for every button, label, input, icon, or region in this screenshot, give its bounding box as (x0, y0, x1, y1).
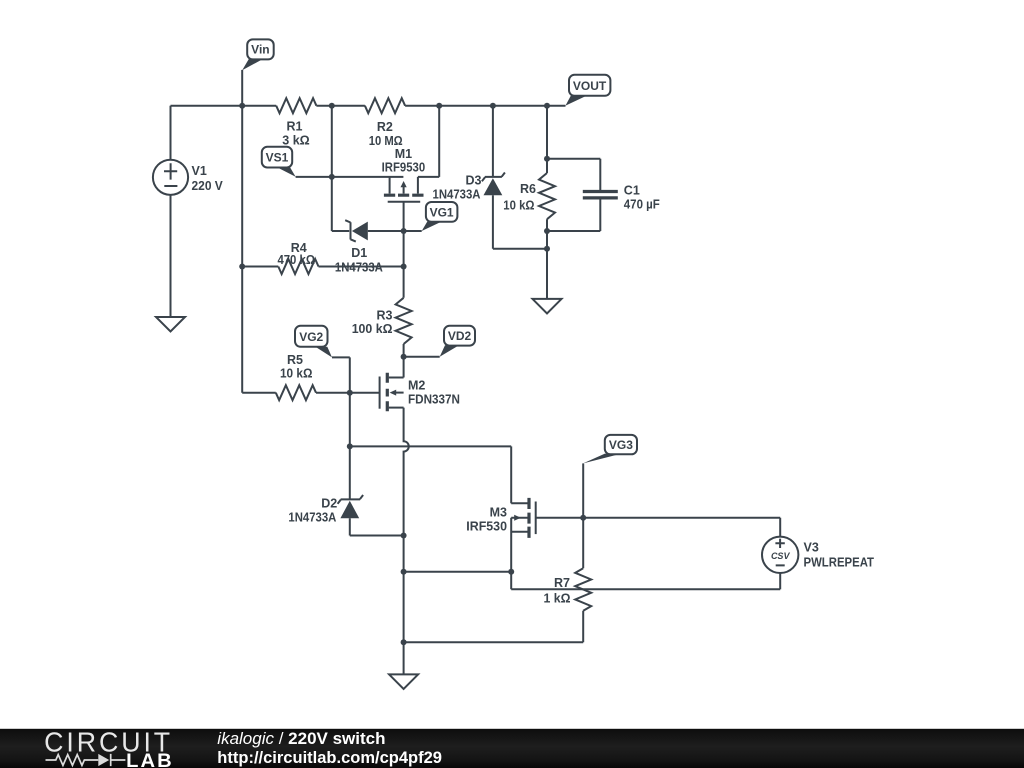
ground V1 (156, 317, 185, 332)
svg-text:R1: R1 (287, 120, 303, 134)
junction bottom left (401, 569, 407, 575)
wire R4 left lead (242, 266, 278, 268)
svg-text:V1: V1 (192, 164, 207, 178)
svg-text:FDN337N: FDN337N (408, 392, 460, 406)
wire R4 right lead (319, 266, 404, 268)
node VD2 flag (440, 326, 475, 357)
svg-text:D1: D1 (351, 246, 367, 260)
logo waveform resistor diode (46, 754, 126, 766)
svg-text:1N4733A: 1N4733A (433, 188, 481, 202)
svg-text:VG2: VG2 (299, 330, 323, 344)
svg-text:470 µF: 470 µF (624, 198, 660, 212)
value label R2 (369, 120, 403, 148)
resistor R4 (278, 259, 318, 274)
svg-text:ikalogic / 220V switch: ikalogic / 220V switch (217, 729, 385, 748)
svg-text:VG3: VG3 (609, 438, 633, 452)
logo CIRCUIT text (44, 726, 173, 757)
svg-text:D2: D2 (321, 497, 337, 511)
wire D3 drop (492, 106, 494, 177)
wire x242 drop Vin to R5 (241, 106, 243, 393)
junction C1 top (544, 156, 550, 162)
diode D3 (482, 173, 547, 249)
svg-text:LAB: LAB (126, 750, 174, 768)
junction D3 bottom (544, 246, 550, 252)
value label M1 (382, 147, 426, 174)
transistor M2 (380, 357, 409, 536)
transistor M3 (511, 498, 780, 589)
node VS1 flag (262, 147, 296, 177)
wire M3 drain riser (510, 446, 512, 503)
svg-text:M2: M2 (408, 379, 425, 393)
value label R4 (277, 241, 315, 267)
node Vin flag (242, 39, 274, 105)
junction D2 bottom (401, 533, 407, 539)
wire hop horizontal VG2 node to M3 drain (350, 445, 511, 447)
value label D2 (288, 497, 337, 525)
logo LAB text (126, 750, 174, 768)
junction R4 left (239, 264, 245, 270)
capacitor C1 (547, 159, 618, 231)
junction VS1 wire (329, 174, 335, 180)
resistor R5 (276, 385, 316, 400)
svg-text:10 kΩ: 10 kΩ (280, 367, 313, 381)
footer url text (217, 748, 442, 767)
svg-text:10 MΩ: 10 MΩ (369, 134, 403, 148)
junction D1 gate node (401, 228, 407, 234)
junction R6 rail (544, 103, 550, 109)
ground main (389, 642, 418, 689)
junction R1-R2 rail (329, 103, 335, 109)
svg-text:M1: M1 (395, 147, 412, 161)
junction R3 M2 drain VD2 (401, 354, 407, 360)
voltage source V1 (153, 106, 188, 317)
svg-text:R6: R6 (520, 182, 536, 196)
value label V3 (804, 540, 875, 569)
junction R4 right (401, 264, 407, 270)
value label M2 (408, 379, 460, 407)
junction VG2 hop (347, 443, 353, 449)
svg-text:D3: D3 (466, 174, 482, 188)
resistor R2 (365, 98, 405, 113)
value label R3 (352, 308, 393, 336)
svg-text:VG1: VG1 (430, 205, 454, 219)
diode D2 (338, 495, 404, 536)
resistor R6 (539, 173, 555, 299)
value label D1 (335, 246, 383, 275)
svg-text:10 kΩ: 10 kΩ (503, 199, 534, 213)
voltage source V3 (762, 537, 798, 590)
diode D1 (345, 220, 422, 241)
footer title text (217, 729, 385, 748)
value label R5 (280, 353, 313, 381)
svg-text:IRF9530: IRF9530 (382, 160, 426, 174)
svg-text:1N4733A: 1N4733A (288, 511, 336, 525)
svg-text:Vin: Vin (251, 43, 269, 57)
svg-text:http://circuitlab.com/cp4pf29: http://circuitlab.com/cp4pf29 (217, 748, 442, 767)
wire rail R1 to R2 (316, 105, 365, 107)
value label R6 (503, 182, 536, 213)
node VOUT flag (566, 75, 611, 106)
junction R5 VG2 (347, 390, 353, 396)
svg-text:IRF530: IRF530 (466, 520, 507, 534)
wire R5 to M2 gate (316, 392, 380, 394)
svg-text:R2: R2 (377, 120, 393, 134)
svg-text:VS1: VS1 (266, 151, 289, 165)
svg-text:R5: R5 (287, 353, 303, 367)
ground R6 (533, 299, 562, 314)
svg-text:3 kΩ: 3 kΩ (282, 134, 310, 148)
wire VS1 riser (331, 106, 333, 177)
wire M1 gate drop to R3 (403, 202, 405, 298)
svg-text:C1: C1 (624, 184, 640, 198)
resistor R1 (276, 98, 316, 113)
wire R6 drop (546, 106, 548, 173)
value label R7 (544, 576, 571, 606)
wire bottom left horizontal (404, 571, 512, 573)
svg-text:V3: V3 (804, 540, 819, 554)
svg-text:220 V: 220 V (192, 179, 224, 193)
junction M3 source (508, 569, 514, 575)
svg-text:CSV: CSV (771, 551, 791, 561)
wire VS1 to M1 source (296, 176, 404, 178)
wire gate M3 to V3 (536, 518, 781, 537)
wire D2 junction down to ground (403, 536, 405, 643)
transistor M1 (384, 106, 439, 202)
wire rail R2 to VOUT (405, 105, 565, 107)
node VG2 flag (295, 326, 350, 358)
svg-text:M3: M3 (490, 505, 507, 519)
junction D3 rail (490, 103, 496, 109)
resistor R3 (396, 298, 412, 357)
svg-text:470 kΩ: 470 kΩ (277, 253, 315, 267)
value label C1 (624, 184, 660, 212)
value label V1 (192, 164, 224, 193)
wire VS1 branch down to D1 (332, 177, 349, 231)
wire bottom to R7 (404, 611, 584, 643)
svg-text:100 kΩ: 100 kΩ (352, 322, 393, 336)
wire R5 left lead (242, 392, 276, 394)
svg-text:VOUT: VOUT (573, 79, 607, 93)
svg-text:VD2: VD2 (448, 329, 472, 343)
junction M1 drain rail (436, 103, 442, 109)
svg-text:1 kΩ: 1 kΩ (544, 592, 571, 606)
svg-text:PWLREPEAT: PWLREPEAT (804, 556, 875, 570)
junction ground node (401, 639, 407, 645)
value label D3 (433, 174, 482, 202)
resistor R7 (575, 518, 591, 611)
wire VG2 drop to D2 (349, 357, 351, 499)
wire top rail segment V1 to R1 (171, 105, 277, 107)
svg-text:R7: R7 (554, 576, 570, 590)
value label R1 (282, 120, 310, 148)
junction VG3 node (580, 515, 586, 521)
svg-text:R3: R3 (377, 308, 393, 322)
node VG3 flag (583, 435, 637, 518)
junction C1 bottom (544, 228, 550, 234)
wire VD2 stub (404, 356, 440, 358)
junction Vin rail (239, 103, 245, 109)
footer bar (0, 729, 1024, 768)
value label M3 (466, 505, 507, 533)
node VG1 flag (422, 202, 458, 231)
